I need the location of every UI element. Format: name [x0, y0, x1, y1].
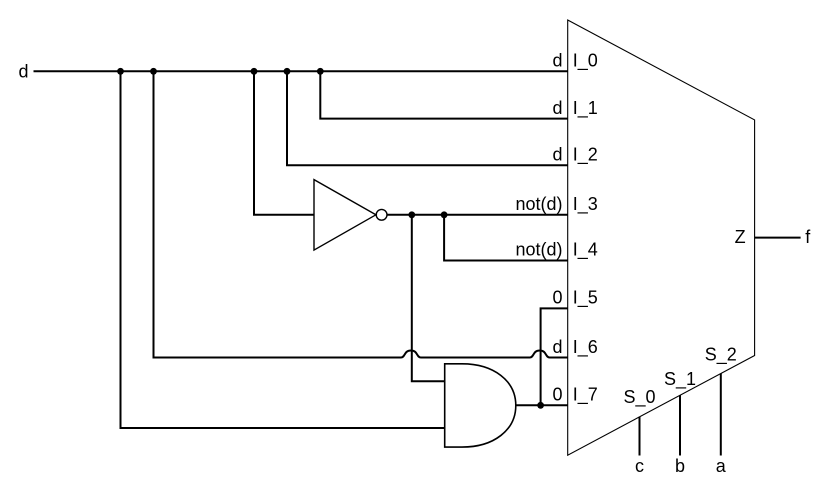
- svg-text:S_1: S_1: [664, 369, 696, 390]
- wire d main horizontal to I_0: [34, 70, 568, 72]
- svg-text:d: d: [552, 144, 562, 164]
- AND gate U2: [445, 364, 516, 447]
- junction dot on d wire x=153.5: [150, 68, 157, 75]
- svg-text:b: b: [675, 456, 685, 476]
- svg-text:not(d): not(d): [515, 194, 562, 214]
- svg-text:I_4: I_4: [573, 240, 598, 261]
- select stub S_2: [720, 374, 722, 456]
- wire vertical from d to I_6 (hops over two verticals): [154, 71, 568, 357]
- multiplexer U3 body: [568, 20, 755, 455]
- select stub S_1: [679, 395, 681, 455]
- svg-text:c: c: [635, 456, 644, 476]
- junction dot on d wire x=287: [284, 68, 291, 75]
- svg-text:S_0: S_0: [623, 387, 655, 408]
- junction dot not(d) x=444.1: [441, 211, 448, 218]
- junction dot I_7 x=540.6: [537, 402, 544, 409]
- wire AND output to I_7: [516, 404, 568, 406]
- svg-text:I_6: I_6: [573, 337, 598, 358]
- wire Z output to f: [755, 237, 801, 239]
- svg-text:Z: Z: [735, 227, 746, 247]
- wire not(d) branch to I_4: [444, 215, 568, 261]
- junction dot not(d) x=411.8: [408, 211, 415, 218]
- wire not(d) branch to AND top input: [412, 215, 445, 381]
- svg-text:d: d: [18, 62, 28, 82]
- wire not(d) output to I_3: [387, 214, 568, 216]
- svg-text:not(d): not(d): [515, 240, 562, 260]
- svg-text:I_0: I_0: [573, 51, 598, 72]
- svg-text:S_2: S_2: [705, 345, 737, 366]
- wire vertical from d to I_2: [287, 71, 568, 165]
- junction dot on d wire x=254: [251, 68, 258, 75]
- select stub S_0: [639, 417, 641, 456]
- wire I_7 tie up to I_5: [541, 308, 568, 405]
- svg-text:a: a: [716, 456, 727, 476]
- inverter U1 (NOT gate): [314, 180, 387, 251]
- wire vertical from d to I_1: [320, 71, 567, 118]
- svg-text:I_7: I_7: [573, 385, 598, 406]
- svg-text:d: d: [552, 51, 562, 71]
- svg-text:d: d: [552, 337, 562, 357]
- svg-text:I_1: I_1: [573, 98, 598, 119]
- wire vertical from d to inverter input: [254, 71, 314, 215]
- svg-text:0: 0: [552, 385, 562, 405]
- svg-text:0: 0: [552, 288, 562, 308]
- wire vertical from d to AND bottom input: [121, 71, 445, 428]
- junction dot on d wire x=120.5: [117, 68, 124, 75]
- svg-text:I_5: I_5: [573, 288, 598, 309]
- node d: [18, 62, 28, 82]
- svg-text:d: d: [552, 98, 562, 118]
- junction dot on d wire x=320.3: [317, 68, 324, 75]
- svg-text:I_3: I_3: [573, 194, 598, 215]
- svg-text:I_2: I_2: [573, 144, 598, 165]
